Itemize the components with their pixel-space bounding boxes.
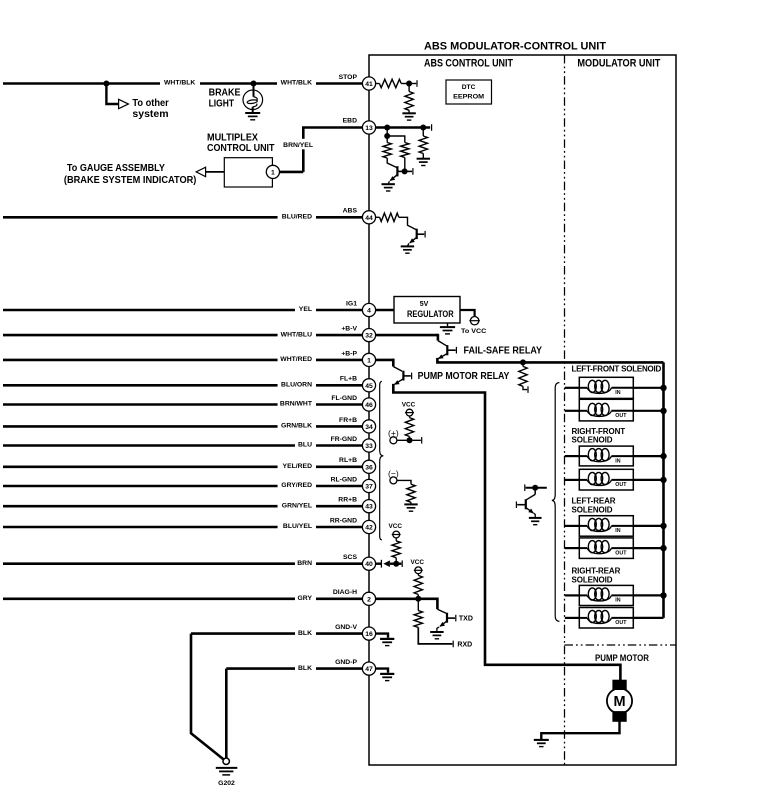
svg-text:FL-GND: FL-GND: [331, 395, 357, 402]
svg-text:BLK: BLK: [298, 630, 312, 637]
pin 16: [362, 627, 375, 640]
svg-text:RR+B: RR+B: [338, 497, 357, 504]
svg-text:MODULATOR UNIT: MODULATOR UNIT: [577, 58, 660, 70]
pin 36: [362, 460, 375, 473]
wire to LEFT-REAR SOLENOID OUT: [565, 547, 580, 549]
wire to middle resistor: [387, 136, 405, 143]
wire to LEFT-FRONT SOLENOID IN: [565, 387, 580, 389]
multiplex control unit box: [224, 158, 272, 187]
wire BLU/RED to pin 44: [3, 216, 278, 219]
EBD divider node: [386, 128, 388, 137]
wire SCS node: [375, 563, 382, 565]
junction feed bus IN: [660, 523, 666, 529]
pin 33: [362, 439, 375, 452]
wire LEFT-FRONT SOLENOID OUT to feed bus: [633, 410, 663, 412]
svg-text:TXD: TXD: [459, 616, 473, 623]
svg-text:YEL/RED: YEL/RED: [283, 463, 313, 470]
svg-text:EEPROM: EEPROM: [453, 93, 485, 100]
brace grouping pins 45-42: [380, 381, 384, 540]
svg-text:FR-GND: FR-GND: [331, 436, 358, 443]
wire YEL/RED to pin 36: [3, 465, 278, 468]
wire resistor to transistor base: [387, 158, 397, 168]
transistor Q-ABS base bar: [416, 229, 418, 239]
dash-dot divider between control unit and modulator unit: [564, 55, 566, 765]
pump motor M1 body: [607, 688, 632, 713]
resistor DIAG to RXD: [417, 599, 419, 611]
wire pump motor to ground: [541, 721, 619, 739]
transistor Q-EBD base bar: [396, 166, 398, 176]
wire to RIGHT-FRONT SOLENOID OUT: [565, 479, 580, 481]
svg-text:IN: IN: [615, 458, 620, 464]
wire LEFT-FRONT SOLENOID IN to feed bus: [633, 387, 663, 389]
wire WHT/BLU to pin 32: [3, 334, 278, 337]
solenoid coil RIGHT-REAR SOLENOID IN: [579, 585, 633, 605]
pump motor M1 top terminal: [613, 680, 626, 689]
resistor (-) to ground: [407, 484, 415, 502]
svg-text:42: 42: [365, 525, 373, 532]
svg-text:IG1: IG1: [346, 300, 357, 307]
svg-text:OUT: OUT: [615, 482, 627, 488]
resistor to ground at pin 41: [408, 84, 410, 92]
resistor VCC to (+) node: [405, 418, 413, 437]
svg-text:CONTROL UNIT: CONTROL UNIT: [207, 143, 275, 154]
regulator output to VCC: [460, 310, 475, 316]
ground EBD right resistor: [417, 158, 430, 160]
svg-text:45: 45: [365, 383, 373, 390]
svg-text:46: 46: [365, 402, 373, 409]
wire +B-P to pump relay transistor: [375, 359, 393, 362]
resistor middle EBD: [401, 143, 409, 158]
solenoid coil RIGHT-FRONT SOLENOID OUT: [579, 469, 633, 490]
solenoid coil LEFT-REAR SOLENOID OUT: [579, 538, 633, 559]
transistor Q-ABS emitter: [410, 237, 417, 243]
wire BRN/YEL to pin 13: [302, 126, 363, 129]
wire multiplex pin1 to riser: [279, 171, 303, 174]
transistor Q-pumprelay base bar: [402, 371, 404, 381]
arrow to gauge assembly: [205, 171, 224, 173]
pin 1: [362, 353, 375, 366]
svg-text:13: 13: [365, 125, 373, 132]
svg-text:16: 16: [365, 631, 373, 638]
solenoid feed bus: [662, 362, 665, 618]
svg-text:OUT: OUT: [615, 413, 627, 419]
wire GND-P run to G202: [225, 669, 228, 758]
wire YEL to pin 4: [3, 309, 295, 312]
ABS control unit box outline: [369, 55, 676, 765]
brake light bulb: [243, 90, 263, 110]
svg-text:DTC: DTC: [462, 84, 476, 91]
resistor at pin 41: [375, 83, 379, 85]
svg-text:36: 36: [365, 464, 373, 471]
open arrow to other system: [119, 99, 129, 108]
wire riser BRN/YEL: [302, 149, 305, 172]
svg-text:GND-P: GND-P: [335, 659, 357, 666]
svg-text:G202: G202: [218, 780, 235, 787]
svg-text:GRY: GRY: [298, 595, 313, 602]
pin 43: [362, 500, 375, 513]
wire LEFT-REAR SOLENOID IN to feed bus: [633, 525, 663, 527]
transistor Q-failsafe emitter: [439, 354, 448, 359]
transistor Q-pumprelay emitter: [395, 379, 404, 385]
solenoid coil LEFT-FRONT SOLENOID OUT: [579, 399, 633, 421]
pin 2: [362, 592, 375, 605]
svg-text:(BRAKE SYSTEM INDICATOR): (BRAKE SYSTEM INDICATOR): [64, 175, 197, 186]
transistor Q-TXD emitter: [440, 621, 447, 626]
svg-text:GRY/RED: GRY/RED: [281, 482, 312, 489]
pin 45: [362, 379, 375, 392]
ground pin41 network: [402, 112, 415, 114]
wire RIGHT-REAR SOLENOID IN to feed bus: [633, 594, 663, 596]
svg-text:OUT: OUT: [615, 550, 627, 556]
wire BLU/ORN to pin 45: [3, 384, 278, 387]
junction feed bus OUT: [660, 477, 666, 483]
transistor Q-solenoid-driver: [534, 488, 536, 495]
junction at pin41 resistor: [406, 81, 412, 87]
EBD internal bus: [375, 126, 430, 129]
svg-text:LEFT-FRONT SOLENOID: LEFT-FRONT SOLENOID: [572, 365, 662, 374]
wire BLK GND-P: [226, 667, 295, 670]
wire to RIGHT-REAR SOLENOID IN: [565, 594, 580, 596]
pin 42: [362, 520, 375, 533]
diode D-SCS: [380, 560, 382, 568]
wire to RIGHT-FRONT SOLENOID IN: [565, 455, 580, 457]
svg-text:VCC: VCC: [402, 401, 416, 408]
wire WHT/BLK middle segment: [200, 82, 277, 85]
svg-text:SOLENOID: SOLENOID: [572, 575, 613, 584]
stub tick EBD bus: [431, 124, 433, 131]
wire BRN to pin 40: [3, 562, 295, 565]
ground TXD transistor: [430, 631, 443, 633]
svg-text:SCS: SCS: [343, 554, 357, 561]
svg-text:FL+B: FL+B: [340, 376, 357, 383]
solenoid coil LEFT-FRONT SOLENOID IN: [579, 377, 633, 398]
wire BLK GND-V: [191, 632, 295, 635]
ground below brake light: [245, 112, 260, 114]
svg-text:WHT/RED: WHT/RED: [280, 356, 312, 363]
junction fail-safe bus: [520, 359, 526, 365]
junction EBD left: [384, 125, 390, 131]
wire (+) to stub: [397, 439, 421, 441]
wire to LEFT-FRONT SOLENOID OUT: [565, 410, 580, 412]
wire IG1 to regulator: [375, 309, 394, 311]
svg-text:ABS CONTROL UNIT: ABS CONTROL UNIT: [424, 58, 513, 70]
pin 46: [362, 398, 375, 411]
ground ABS transistor: [401, 245, 414, 247]
svg-text:OUT: OUT: [615, 620, 627, 626]
svg-text:IN: IN: [615, 390, 620, 396]
svg-text:+B-V: +B-V: [341, 326, 357, 333]
transistor Q-TXD collector: [447, 617, 455, 619]
svg-text:BRAKE: BRAKE: [209, 87, 241, 98]
svg-text:M: M: [613, 694, 625, 710]
svg-text:BLU/YEL: BLU/YEL: [283, 523, 312, 530]
junction EBD right: [420, 125, 426, 131]
wire to LEFT-REAR SOLENOID IN: [565, 525, 580, 527]
svg-text:47: 47: [365, 666, 373, 673]
brace solenoid bundle: [552, 383, 560, 622]
transistor Q-pumprelay collector: [403, 375, 410, 377]
svg-text:ABS: ABS: [343, 208, 358, 215]
solenoid coil RIGHT-REAR SOLENOID OUT: [579, 608, 633, 629]
pump relay output bus to pump motor: [393, 384, 620, 681]
svg-text:VCC: VCC: [411, 559, 425, 566]
svg-text:LEFT-REAR: LEFT-REAR: [572, 497, 616, 506]
svg-text:SOLENOID: SOLENOID: [572, 505, 613, 514]
wire BLU/YEL to pin 42: [3, 526, 278, 529]
wire GRY to pin 2: [3, 597, 295, 600]
svg-text:FAIL-SAFE RELAY: FAIL-SAFE RELAY: [464, 346, 543, 357]
svg-text:40: 40: [365, 561, 373, 568]
wire to brake light: [253, 84, 255, 97]
ground below regulator: [447, 323, 449, 327]
svg-text:1: 1: [271, 169, 275, 176]
pin 13: [362, 121, 375, 134]
svg-text:RR-GND: RR-GND: [330, 517, 357, 524]
wire GRN/YEL to pin 43: [3, 505, 278, 508]
svg-text:33: 33: [365, 443, 373, 450]
ground at pin 47: [375, 669, 388, 673]
svg-text:WHT/BLK: WHT/BLK: [281, 80, 312, 87]
wire BLU to pin 33: [3, 444, 295, 447]
wire RIGHT-FRONT SOLENOID IN to feed bus: [633, 455, 663, 457]
wire GND-V run to G202: [191, 634, 224, 760]
5V regulator box U-REG: [394, 297, 460, 324]
junction feed bus OUT: [660, 545, 666, 551]
svg-text:SOLENOID: SOLENOID: [572, 436, 613, 445]
svg-text:WHT/BLU: WHT/BLU: [281, 331, 312, 338]
svg-text:RL-GND: RL-GND: [331, 476, 358, 483]
pin 34: [362, 420, 375, 433]
wire +B-V to fail-safe transistor: [375, 334, 438, 337]
svg-text:IN: IN: [615, 528, 620, 534]
svg-text:BLU/RED: BLU/RED: [282, 214, 312, 221]
pin 40: [362, 557, 375, 570]
pin 4: [362, 303, 375, 316]
wire LEFT-REAR SOLENOID OUT to feed bus: [633, 547, 663, 549]
solenoid coil LEFT-REAR SOLENOID IN: [579, 516, 633, 537]
junction solenoid driver collector: [532, 485, 538, 491]
resistor below fail-safe bus: [522, 362, 524, 366]
transistor Q-EBD emitter: [390, 175, 397, 181]
svg-text:To other: To other: [132, 98, 168, 109]
svg-text:1: 1: [367, 357, 371, 364]
resistor left EBD (base): [386, 136, 388, 143]
svg-text:STOP: STOP: [339, 74, 358, 81]
pump motor M1 bottom terminal: [613, 712, 626, 722]
ground G202: [223, 758, 229, 764]
multiplex pin 1: [266, 165, 279, 178]
junction feed bus IN: [660, 592, 666, 598]
pin 41: [362, 77, 375, 90]
pin 37: [362, 479, 375, 492]
svg-text:RIGHT-FRONT: RIGHT-FRONT: [572, 427, 626, 436]
DTC EEPROM box: [446, 80, 492, 104]
junction to other system: [103, 81, 109, 87]
wire branch to other system: [106, 84, 118, 105]
resistor VCC to SCS: [392, 541, 400, 558]
transistor Q-EBD collector: [397, 170, 412, 172]
svg-text:44: 44: [365, 215, 373, 222]
pin 47: [362, 662, 375, 675]
resistor VCC to DIAG node: [414, 575, 422, 594]
svg-text:ABS MODULATOR-CONTROL UNIT: ABS MODULATOR-CONTROL UNIT: [424, 41, 606, 53]
svg-text:+B-P: +B-P: [341, 350, 357, 357]
svg-text:system: system: [132, 109, 168, 120]
ground EBD transistor: [382, 183, 395, 185]
svg-text:RIGHT-REAR: RIGHT-REAR: [572, 567, 621, 576]
svg-text:BRN/WHT: BRN/WHT: [280, 401, 313, 408]
solenoid coil RIGHT-FRONT SOLENOID IN: [579, 446, 633, 466]
svg-text:YEL: YEL: [299, 306, 312, 313]
svg-text:MULTIPLEX: MULTIPLEX: [207, 132, 258, 143]
transistor Q-failsafe collector: [447, 349, 455, 351]
svg-text:BRN/YEL: BRN/YEL: [283, 142, 313, 149]
junction feed bus OUT: [660, 408, 666, 414]
wire solenoid driver collector stub: [524, 484, 526, 491]
svg-text:BLK: BLK: [298, 665, 312, 672]
svg-text:GND-V: GND-V: [335, 624, 357, 631]
ground pump motor: [534, 739, 549, 741]
wire WHT/RED to pin 1: [3, 359, 278, 362]
svg-text:To VCC: To VCC: [461, 328, 487, 335]
ground at pin 16: [375, 634, 388, 638]
wire WHT/BLK to pin 41: [316, 82, 363, 85]
svg-text:GRN/YEL: GRN/YEL: [282, 502, 312, 509]
svg-text:BLU: BLU: [298, 442, 312, 449]
wire RIGHT-REAR SOLENOID OUT to feed bus: [633, 617, 663, 619]
svg-text:34: 34: [365, 424, 373, 431]
transistor Q-ABS collector: [417, 233, 425, 235]
dash-dot separator above pump motor section: [565, 644, 677, 646]
ground solenoid driver: [529, 517, 542, 519]
junction brake light: [251, 81, 257, 87]
svg-text:WHT/BLK: WHT/BLK: [164, 80, 195, 87]
junction feed bus IN: [660, 453, 666, 459]
svg-text:BLU/ORN: BLU/ORN: [281, 382, 312, 389]
wire to RIGHT-REAR SOLENOID OUT: [565, 617, 580, 619]
svg-text:VCC: VCC: [388, 523, 402, 530]
svg-text:EBD: EBD: [343, 117, 357, 124]
svg-text:BRN: BRN: [297, 560, 312, 567]
resistor at pin 44: [375, 216, 379, 218]
svg-text:PUMP MOTOR: PUMP MOTOR: [595, 653, 649, 664]
svg-text:To GAUGE ASSEMBLY: To GAUGE ASSEMBLY: [67, 163, 165, 174]
wire BRN/WHT to pin 46: [3, 403, 278, 406]
wire (-) to resistor: [397, 480, 411, 484]
wire WHT/BLK stop-light feed, left segment: [3, 82, 160, 85]
wire GRY/RED to pin 37: [3, 485, 278, 488]
stub tick: [416, 80, 418, 87]
svg-text:FR+B: FR+B: [339, 417, 357, 424]
wire GRN/BLK to pin 34: [3, 425, 278, 428]
svg-text:37: 37: [365, 484, 373, 491]
svg-text:4: 4: [367, 308, 371, 315]
fail-safe relay output bus: [437, 358, 663, 363]
svg-text:REGULATOR: REGULATOR: [407, 308, 454, 319]
svg-text:RL+B: RL+B: [339, 457, 357, 464]
junction feed bus IN: [660, 385, 666, 391]
svg-text:PUMP MOTOR RELAY: PUMP MOTOR RELAY: [418, 371, 510, 382]
svg-text:DIAG-H: DIAG-H: [333, 589, 357, 596]
wire RIGHT-FRONT SOLENOID OUT to feed bus: [633, 479, 663, 481]
svg-text:32: 32: [365, 333, 373, 340]
transistor Q-TXD base bar: [446, 613, 448, 623]
resistor right EBD: [422, 128, 424, 137]
ground (-) network: [404, 503, 417, 505]
transistor Q-failsafe base bar: [446, 345, 448, 355]
svg-text:LIGHT: LIGHT: [209, 99, 235, 110]
svg-text:41: 41: [365, 81, 373, 88]
pin 44: [362, 211, 375, 224]
svg-text:GRN/BLK: GRN/BLK: [281, 423, 312, 430]
DIAG-H internal bus: [375, 597, 437, 600]
svg-text:2: 2: [367, 596, 371, 603]
svg-text:43: 43: [365, 504, 373, 511]
svg-text:RXD: RXD: [457, 642, 472, 649]
pin 32: [362, 329, 375, 342]
svg-text:IN: IN: [615, 598, 620, 604]
